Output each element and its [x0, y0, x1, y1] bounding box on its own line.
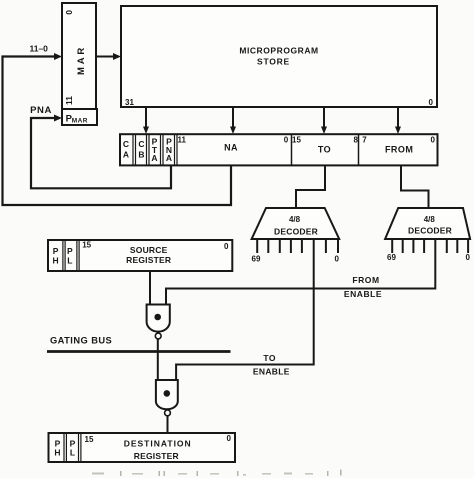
bus driver gate 1 [147, 305, 170, 339]
svg-text:DECODER: DECODER [408, 226, 452, 236]
register PMAR [62, 109, 97, 125]
arrow store to control cells [143, 107, 149, 134]
svg-text:B: B [138, 149, 144, 159]
svg-text:69: 69 [387, 253, 396, 262]
svg-text:0: 0 [224, 242, 229, 251]
source register [48, 240, 232, 271]
svg-text:31: 31 [125, 98, 134, 107]
svg-text:0: 0 [466, 253, 471, 262]
svg-text:FROM: FROM [385, 144, 414, 154]
cell PNA [174, 134, 176, 165]
wire FROM field to decoder [401, 165, 429, 208]
svg-text:GATING BUS: GATING BUS [50, 336, 112, 346]
wire MAR to store [96, 53, 121, 60]
svg-text:0: 0 [431, 135, 436, 144]
svg-text:FROM: FROM [352, 275, 379, 285]
svg-text:H: H [53, 255, 59, 265]
svg-text:ENABLE: ENABLE [344, 289, 382, 299]
svg-text:15: 15 [82, 241, 91, 250]
arrow store to TO [321, 107, 327, 134]
cut-off caption fragments [92, 470, 342, 477]
cell CA [132, 134, 134, 165]
svg-text:0: 0 [227, 434, 232, 443]
svg-text:69: 69 [252, 255, 261, 264]
microinstruction register row [120, 134, 438, 165]
svg-text:P: P [67, 246, 73, 256]
svg-text:SOURCE: SOURCE [130, 245, 168, 255]
arrow store to NA [230, 107, 236, 134]
to enable wire [176, 239, 314, 380]
svg-text:STORE: STORE [257, 57, 290, 67]
from enable wire [166, 239, 435, 304]
gating bus [47, 336, 231, 352]
svg-text:H: H [54, 448, 60, 458]
svg-text:C: C [123, 139, 129, 149]
bus driver gate 2 [156, 380, 178, 416]
TO decoder U2 [252, 208, 340, 264]
svg-text:MAR: MAR [76, 45, 87, 75]
destination register [49, 433, 236, 462]
wire source register to driver [149, 271, 151, 305]
svg-text:0: 0 [284, 135, 289, 144]
svg-text:A: A [166, 153, 172, 163]
FROM decoder U3 [385, 208, 470, 262]
svg-text:L: L [67, 255, 72, 265]
register MAR [62, 3, 96, 109]
svg-text:A: A [151, 153, 157, 163]
svg-text:L: L [70, 448, 75, 458]
svg-text:15: 15 [85, 435, 94, 444]
wire 11-0 into MAR with NA feedback [3, 44, 232, 206]
wire driver1 to driver2 through bus [157, 339, 159, 380]
svg-text:P: P [53, 246, 59, 256]
svg-text:DESTINATION: DESTINATION [124, 439, 192, 449]
svg-text:ENABLE: ENABLE [253, 366, 290, 376]
wire PNA into PMAR feedback [30, 105, 171, 188]
wire TO field to decoder [296, 165, 325, 208]
svg-text:C: C [138, 139, 144, 149]
svg-text:15: 15 [292, 135, 301, 144]
svg-text:MAR: MAR [72, 118, 88, 125]
svg-text:11–0: 11–0 [29, 44, 48, 54]
svg-text:11: 11 [64, 96, 74, 105]
svg-text:0: 0 [64, 10, 74, 15]
svg-text:0: 0 [429, 98, 434, 107]
svg-text:4/8: 4/8 [424, 215, 436, 224]
svg-text:TO: TO [263, 353, 276, 363]
cell CB [146, 134, 148, 165]
svg-text:0: 0 [335, 255, 340, 264]
svg-text:4/8: 4/8 [289, 215, 301, 224]
svg-text:REGISTER: REGISTER [134, 451, 179, 461]
svg-text:11: 11 [178, 135, 187, 144]
svg-text:DECODER: DECODER [274, 227, 318, 237]
svg-text:NA: NA [224, 143, 238, 153]
svg-text:MICROPROGRAM: MICROPROGRAM [239, 46, 318, 56]
svg-text:PNA: PNA [30, 105, 52, 116]
svg-text:A: A [123, 149, 129, 159]
svg-text:REGISTER: REGISTER [126, 255, 171, 265]
svg-text:TO: TO [318, 144, 331, 154]
arrow store to FROM [395, 107, 401, 134]
wire driver2 to destination register [167, 416, 169, 433]
microprogram store U1 [121, 6, 437, 107]
cell PTA [160, 134, 162, 165]
svg-text:7: 7 [362, 135, 367, 144]
